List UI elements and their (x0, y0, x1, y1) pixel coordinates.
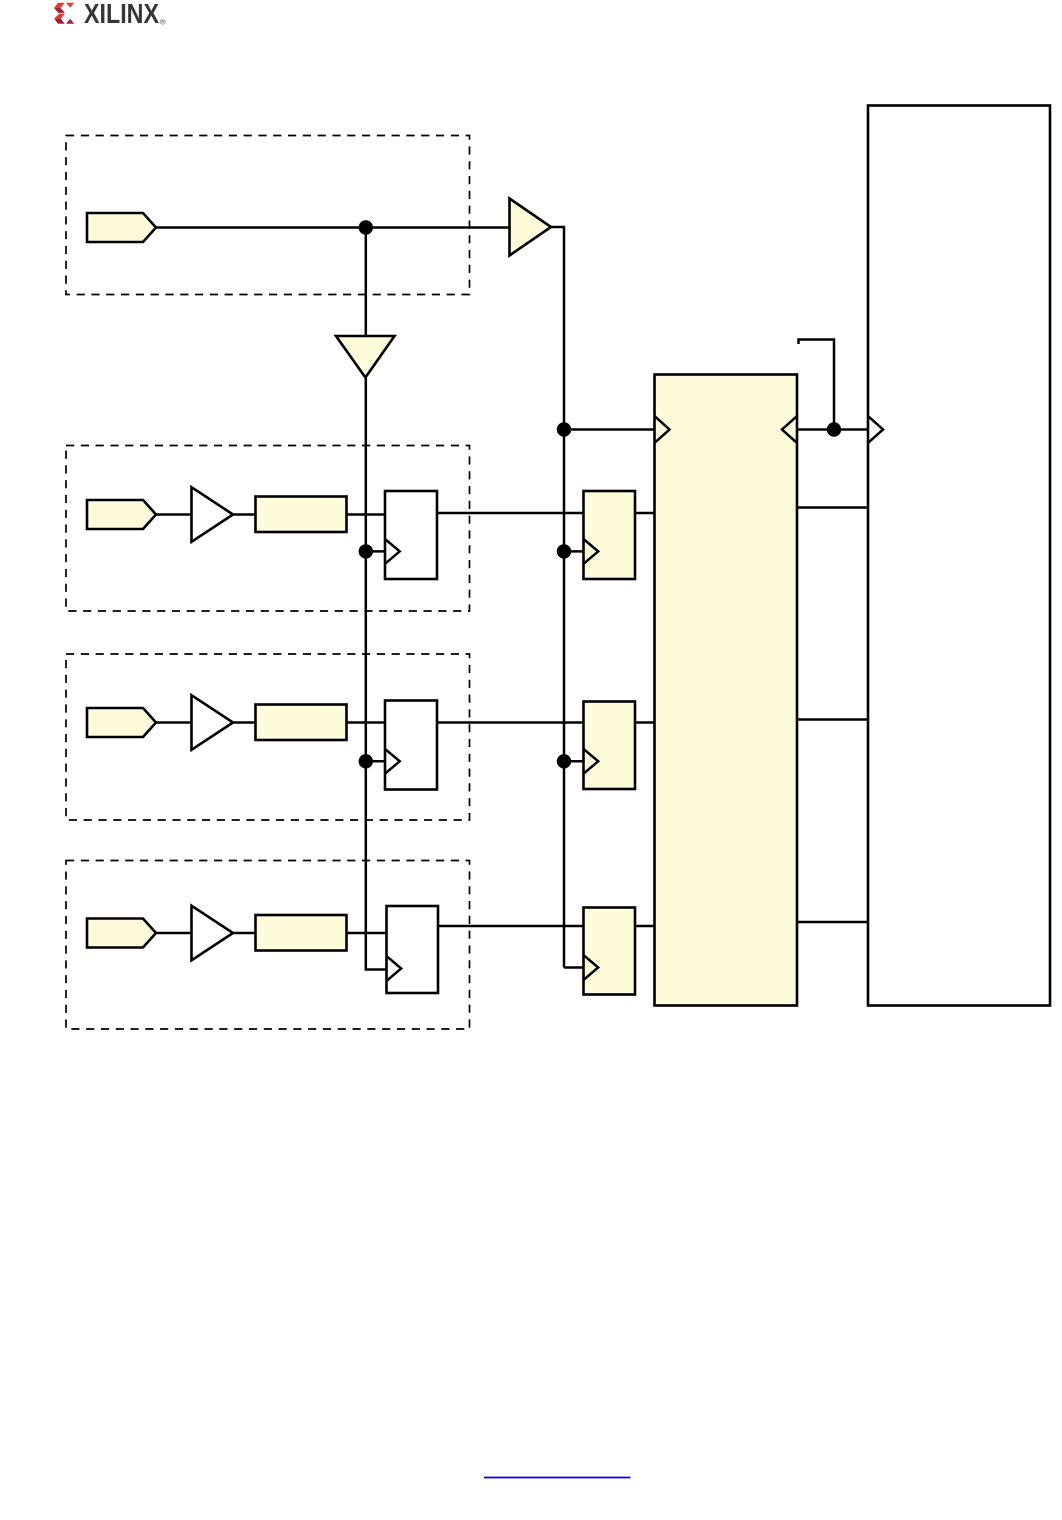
wire FD3 to DDR block (635, 925, 655, 928)
clock chevron FD2 (584, 749, 599, 774)
wire clock line A upper (365, 228, 368, 337)
wire pad3 to buffer3 (156, 932, 192, 935)
wire buffer out to vertical clock line B (551, 227, 564, 968)
node clock B row2 (557, 754, 571, 768)
wire delay2 to FF2 (347, 721, 386, 724)
svg-text:®: ® (160, 18, 166, 27)
wire clock A to FF1 (366, 550, 385, 553)
DDR block (yellow, center) (655, 375, 798, 1006)
wire FD2 to DDR block (635, 721, 655, 724)
wire FF1 to FD1 (437, 512, 584, 515)
node clock junction (359, 220, 373, 234)
clock chevron FF1 (385, 539, 400, 564)
clock buffer BUFG (yellow) (510, 199, 552, 256)
wire pad1 to buffer1 (156, 513, 192, 516)
flip-flop FF1 (white) (385, 491, 437, 579)
wire clock B to DDR block (564, 428, 655, 431)
IOB block (white, right) (868, 106, 1050, 1006)
dashed box data group 1 (66, 446, 470, 612)
input pad D2 (87, 708, 156, 737)
wire DDR to IOB row1 (797, 506, 868, 509)
wire clock pad to buffer (156, 226, 510, 229)
clock chevron DDR right (782, 416, 797, 443)
capture FF FD1 (yellow) (584, 491, 636, 579)
delay element DLY2 (yellow rect) (256, 705, 347, 741)
hyperlink rule (484, 1477, 631, 1479)
capture FF FD3 (yellow) (584, 908, 636, 995)
flip-flop FF3 (white) (387, 906, 439, 993)
delay element DLY1 (yellow rect) (256, 497, 347, 533)
wire buffer3 to delay3 (233, 932, 256, 935)
wire DDR right clock to IOB (797, 428, 868, 431)
input buffer IBUF2 (white) (192, 695, 234, 750)
wire FF2 to FD2 (437, 721, 584, 724)
dashed box clock input group (66, 136, 470, 295)
wire delay1 to FF1 (347, 513, 386, 516)
wire buffer2 to delay2 (233, 721, 256, 724)
clock chevron FD1 (584, 539, 599, 564)
clock chevron FD3 (584, 955, 599, 980)
wire feedback L (799, 340, 835, 430)
wire DDR to IOB row3 (797, 921, 868, 924)
node clock A row1 (359, 544, 373, 558)
input pad clock (87, 213, 156, 242)
node clock B branch (557, 422, 571, 436)
input pad D1 (87, 500, 156, 529)
clock chevron IOB left (868, 416, 883, 443)
wire DDR to IOB row2 (797, 718, 868, 721)
clock chevron FF3 (387, 956, 402, 981)
wire FD1 to DDR block (635, 512, 655, 515)
wire FF3 to FD3 (438, 925, 584, 928)
dashed box data group 3 (66, 861, 470, 1030)
wire clock B to FD2 (564, 760, 584, 763)
input pad D3 (87, 919, 156, 948)
flip-flop FF2 (white) (385, 701, 437, 790)
node clock B row1 (557, 544, 571, 558)
wire delay3 to FF3 (347, 932, 387, 935)
wire buffer1 to delay1 (233, 513, 256, 516)
svg-text:XILINX: XILINX (84, 0, 159, 29)
Xilinx logo mark (54, 3, 74, 24)
wire clock line A lower (366, 378, 386, 970)
clock chevron FF2 (385, 749, 400, 774)
capture FF FD2 (yellow) (584, 702, 636, 790)
dashed box data group 2 (66, 654, 470, 820)
wire clock B L-turn to FD3 (564, 966, 584, 969)
wire pad2 to buffer2 (156, 721, 192, 724)
input buffer IBUF3 (white) (192, 906, 234, 961)
clock chevron DDR left (655, 416, 670, 443)
input buffer IBUF1 (white) (192, 487, 234, 542)
Xilinx logo wordmark (84, 0, 166, 29)
delay element DLY3 (yellow rect) (256, 915, 347, 951)
node feedback junction (827, 422, 841, 436)
node clock A row2 (359, 754, 373, 768)
inverter (inverted triangle) (336, 336, 395, 378)
wire clock B to FD1 (564, 550, 584, 553)
wire clock A to FF2 (366, 760, 385, 763)
